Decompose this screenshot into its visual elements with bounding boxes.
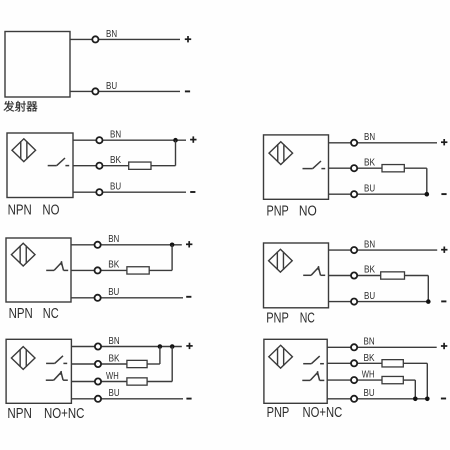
wire resistor to junction (PNP NO) xyxy=(404,168,427,194)
wire BN (PNP NO) to + xyxy=(329,142,438,144)
svg-text:NO: NO xyxy=(42,203,59,219)
sensor box (NPN NC) xyxy=(6,238,71,302)
optical sensor symbol (NPN NO) xyxy=(12,139,36,162)
label BU (NPN NO) xyxy=(110,181,121,192)
label NC (PNP NC) xyxy=(300,310,315,326)
label WH (PNP NO+NC) xyxy=(362,370,375,381)
svg-text:NPN: NPN xyxy=(9,306,33,322)
svg-text:NO+NC: NO+NC xyxy=(44,406,84,422)
sensor box (NPN NO+NC) xyxy=(6,339,71,403)
wire BK (PNP NC) xyxy=(329,275,381,277)
label BK (PNP NC) xyxy=(364,265,375,276)
wire WH resistor to junction (NPN NO+NC) xyxy=(147,347,172,382)
terminal circle BU (PNP NC) xyxy=(351,299,357,305)
label BN (PNP NO) xyxy=(364,132,375,143)
minus terminal (PNP NO+NC) xyxy=(441,398,446,400)
svg-text:BK: BK xyxy=(110,155,121,166)
label PNP (PNP NO) xyxy=(267,203,289,219)
label BU (transmitter) xyxy=(106,81,117,92)
terminal circle BK (PNP NO) xyxy=(351,165,357,171)
optical sensor symbol (PNP NO+NC) xyxy=(269,345,293,368)
svg-text:BU: BU xyxy=(364,388,375,399)
label PNP (PNP NO+NC) xyxy=(267,405,290,421)
label BN (PNP NO+NC) xyxy=(364,337,375,348)
label BN (NPN NO+NC) xyxy=(109,336,120,347)
plus terminal (transmitter) xyxy=(185,36,191,42)
svg-text:NO: NO xyxy=(299,203,317,219)
minus terminal (PNP NC) xyxy=(441,300,446,302)
transmitter box 发射器 xyxy=(5,32,70,98)
NC switch contact (PNP NC) xyxy=(303,266,325,275)
wire WH (PNP NO+NC) xyxy=(327,379,382,381)
wire resistor to junction (PNP NC) xyxy=(405,276,429,302)
svg-text:BK: BK xyxy=(364,353,375,364)
terminal circle BK (PNP NO+NC) xyxy=(351,360,357,366)
NO switch contact (NPN NO+NC) xyxy=(46,356,67,364)
junction dot on + line (NPN NC) xyxy=(170,243,175,248)
junction dot on - line (PNP NO) xyxy=(425,192,430,197)
junction dot WH (NPN NO+NC) xyxy=(170,344,175,349)
label BU (NPN NC) xyxy=(108,287,119,298)
svg-text:BU: BU xyxy=(108,287,119,298)
terminal circle BN (PNP NO+NC) xyxy=(351,344,357,350)
svg-text:BU: BU xyxy=(109,388,120,399)
load resistor (NPN NO) xyxy=(129,162,151,169)
terminal circle BN (NPN NO) xyxy=(96,137,102,143)
terminal circle BK (PNP NC) xyxy=(351,272,357,278)
wire BK (NPN NO) xyxy=(73,165,129,167)
junction dot BK (NPN NO+NC) xyxy=(158,344,163,349)
terminal circle BU (PNP NO) xyxy=(351,191,357,197)
optical sensor symbol (NPN NO+NC) xyxy=(11,347,35,370)
svg-text:BU: BU xyxy=(110,181,121,192)
minus terminal (transmitter) xyxy=(185,90,190,92)
terminal circle BK (NPN NO+NC) xyxy=(95,361,101,367)
terminal circle BN (NPN NC) xyxy=(95,242,101,248)
minus terminal (NPN NC) xyxy=(186,296,191,298)
svg-text:BN: BN xyxy=(110,129,121,140)
wire BU (transmitter) to - xyxy=(70,90,180,92)
svg-text:BU: BU xyxy=(364,183,375,194)
svg-text:PNP: PNP xyxy=(267,405,290,421)
label NPN (NPN NO) xyxy=(8,203,32,219)
svg-text:NO+NC: NO+NC xyxy=(303,405,343,421)
wire resistor to junction (NPN NC) xyxy=(149,245,172,271)
minus terminal (NPN NO+NC) xyxy=(186,398,191,400)
plus terminal (PNP NO) xyxy=(441,139,447,145)
svg-text:BN: BN xyxy=(109,336,120,347)
wire BN (NPN NC) to + xyxy=(71,244,182,246)
sensor box (PNP NO) xyxy=(264,135,329,199)
svg-text:BN: BN xyxy=(364,132,375,143)
label BN (NPN NO) xyxy=(110,129,121,140)
NO switch contact (PNP NO+NC) xyxy=(303,356,324,364)
sensor box (PNP NO+NC) xyxy=(264,339,327,403)
svg-text:BN: BN xyxy=(108,234,119,245)
wire BK (PNP NO+NC) xyxy=(327,362,382,364)
terminal circle BN (PNP NO) xyxy=(351,140,357,146)
svg-text:NPN: NPN xyxy=(7,406,32,422)
label BU (PNP NO) xyxy=(364,183,375,194)
terminal circle BU (NPN NO) xyxy=(96,189,102,195)
plus terminal (NPN NO+NC) xyxy=(186,343,192,349)
wire BU (PNP NO+NC) to - xyxy=(327,398,427,400)
wire BU (NPN NO+NC) to - xyxy=(71,398,183,400)
load resistor (PNP NC) xyxy=(381,272,405,279)
wire BN (PNP NC) to + xyxy=(329,249,438,251)
terminal circle BK (NPN NC) xyxy=(95,267,101,273)
label NPN (NPN NO+NC) xyxy=(7,406,32,422)
optical sensor symbol (NPN NC) xyxy=(11,243,35,266)
label BN (NPN NC) xyxy=(108,234,119,245)
wire WH resistor to junction (PNP NO+NC) xyxy=(403,380,415,399)
svg-text:NPN: NPN xyxy=(8,203,32,219)
svg-text:PNP: PNP xyxy=(266,310,289,326)
plus terminal (NPN NC) xyxy=(186,241,192,247)
wire BK resistor to junction (PNP NO+NC) xyxy=(403,363,427,399)
svg-text:BN: BN xyxy=(364,337,375,348)
svg-text:NC: NC xyxy=(43,306,59,322)
label PNP (PNP NC) xyxy=(266,310,289,326)
terminal circle BU (PNP NO+NC) xyxy=(351,396,357,402)
sensor box (NPN NO) xyxy=(7,133,73,198)
label NO (PNP NO) xyxy=(299,203,317,219)
label BK (NPN NC) xyxy=(108,260,119,271)
wire BN (NPN NO) to + xyxy=(73,139,186,141)
load resistor WH (NPN NO+NC) xyxy=(127,378,147,385)
NO switch contact (NPN NO) xyxy=(48,158,69,166)
terminal circle BN (PNP NC) xyxy=(351,247,357,253)
wire BN (PNP NO+NC) to + xyxy=(327,346,437,348)
load resistor (PNP NO) xyxy=(382,165,404,172)
svg-text:WH: WH xyxy=(362,370,375,381)
label BK (NPN NO+NC) xyxy=(109,353,120,364)
NC switch contact (NPN NO+NC) xyxy=(46,371,68,380)
terminal circle WH (PNP NO+NC) xyxy=(351,377,357,383)
wire BK (PNP NO) xyxy=(329,167,383,169)
label WH (NPN NO+NC) xyxy=(106,371,119,382)
optical sensor symbol (PNP NC) xyxy=(269,249,293,272)
NO switch contact (PNP NO) xyxy=(303,161,326,169)
wire BU (NPN NC) to - xyxy=(71,297,183,299)
plus terminal (NPN NO) xyxy=(190,136,196,142)
terminal circle BN (transmitter) xyxy=(92,36,98,42)
junction dot WH on - line (PNP NO+NC) xyxy=(413,397,418,402)
svg-text:WH: WH xyxy=(106,371,119,382)
svg-text:NC: NC xyxy=(300,310,315,326)
wire BK resistor to junction (NPN NO+NC) xyxy=(147,347,160,365)
svg-text:BK: BK xyxy=(108,260,119,271)
wire BN (transmitter) to + xyxy=(70,38,180,40)
load resistor BK (PNP NO+NC) xyxy=(382,360,403,367)
wire BU (PNP NO) to - xyxy=(329,193,427,195)
label BU (PNP NO+NC) xyxy=(364,388,375,399)
svg-text:BN: BN xyxy=(364,239,375,250)
NC switch contact (PNP NO+NC) xyxy=(302,371,324,380)
wire BK (NPN NO+NC) xyxy=(71,363,127,365)
minus terminal (PNP NO) xyxy=(441,193,446,195)
label NC (NPN NC) xyxy=(43,306,59,322)
svg-text:BK: BK xyxy=(109,353,120,364)
junction dot BK on - line (PNP NO+NC) xyxy=(425,397,430,402)
wire BU (NPN NO) to - xyxy=(73,191,186,193)
label BK (NPN NO) xyxy=(110,155,121,166)
sensor box (PNP NC) xyxy=(264,243,329,308)
svg-text:BN: BN xyxy=(106,29,117,40)
label BK (PNP NO) xyxy=(364,157,375,168)
label BN (transmitter) xyxy=(106,29,117,40)
junction dot on - line (PNP NC) xyxy=(426,299,431,304)
label NO (NPN NO) xyxy=(42,203,59,219)
label 发射器 (transmitter) xyxy=(4,101,38,112)
plus terminal (PNP NC) xyxy=(441,247,447,253)
terminal circle BN (NPN NO+NC) xyxy=(95,343,101,349)
terminal circle BU (NPN NC) xyxy=(95,295,101,301)
svg-text:BK: BK xyxy=(364,157,375,168)
load resistor WH (PNP NO+NC) xyxy=(382,376,403,383)
svg-text:BK: BK xyxy=(364,265,375,276)
terminal circle WH (NPN NO+NC) xyxy=(95,378,101,384)
minus terminal (NPN NO) xyxy=(190,191,195,193)
wire WH (NPN NO+NC) xyxy=(71,381,127,383)
plus terminal (PNP NO+NC) xyxy=(441,343,447,349)
optical sensor symbol (PNP NO) xyxy=(269,142,293,165)
NC switch contact (NPN NC) xyxy=(46,261,68,270)
svg-text:PNP: PNP xyxy=(267,203,289,219)
load resistor (NPN NC) xyxy=(127,267,149,274)
wire BK (NPN NC) xyxy=(71,269,127,271)
label NO+NC (PNP NO+NC) xyxy=(303,405,343,421)
label NPN (NPN NC) xyxy=(9,306,33,322)
svg-text:BU: BU xyxy=(364,291,375,302)
label NO+NC (NPN NO+NC) xyxy=(44,406,84,422)
label BU (PNP NC) xyxy=(364,291,375,302)
terminal circle BK (NPN NO) xyxy=(96,163,102,169)
terminal circle BU (NPN NO+NC) xyxy=(95,396,101,402)
load resistor BK (NPN NO+NC) xyxy=(127,360,147,367)
label BN (PNP NC) xyxy=(364,239,375,250)
wire BN (NPN NO+NC) to + xyxy=(71,346,181,348)
label BU (NPN NO+NC) xyxy=(109,388,120,399)
junction dot on + line (NPN NO) xyxy=(173,138,178,143)
svg-text:BU: BU xyxy=(106,81,117,92)
terminal circle BU (transmitter) xyxy=(92,88,98,94)
wire BU (PNP NC) to - xyxy=(329,301,429,303)
label BK (PNP NO+NC) xyxy=(364,353,375,364)
wire resistor to junction (NPN NO) xyxy=(151,140,176,166)
